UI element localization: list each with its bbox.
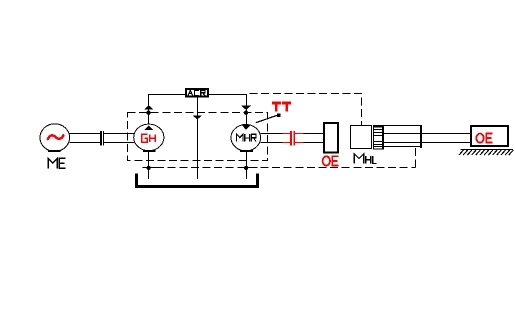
AC symbol (red tilde) inside ME: [48, 135, 64, 139]
wire GH vertical lower: [148, 151, 150, 179]
MHL barrel: [384, 125, 422, 148]
elastic coupling (red): [283, 131, 304, 146]
pump GH circle: [134, 124, 164, 151]
MHL piston (hatched): [373, 125, 384, 150]
junction dot MHR upper: [244, 111, 248, 115]
flow arrow on middle wire (down): [193, 116, 202, 120]
flywheel OE: [323, 122, 339, 154]
flow arrow at MHR circle top (down): [241, 124, 251, 130]
label MHL: [354, 154, 377, 164]
dashed supply line MHR to MHL (top): [246, 94, 362, 126]
ground hatching under load: [459, 150, 513, 156]
dashed enclosure box (hydrostatic unit): [128, 113, 268, 161]
tank (thick U): [137, 174, 258, 187]
coupling between ME and GH: [100, 131, 104, 146]
label MHR: [237, 134, 256, 141]
wire GH vertical upper: [148, 95, 150, 126]
wire MHR vertical upper: [246, 95, 248, 126]
label ME: [48, 158, 65, 168]
junction dot GH lower: [146, 166, 150, 170]
piston rod lines: [384, 134, 470, 143]
linear hydraulic motor MHL: swash block: [351, 126, 372, 149]
load box OE (right): [470, 125, 509, 147]
junction dot MHR lower: [244, 166, 248, 170]
shaft ME to GH (two lines): [70, 134, 135, 143]
top bus line GH to MHR: [148, 94, 247, 96]
shaft MHR to flywheel: [261, 134, 324, 143]
junction dot GH upper: [146, 111, 150, 115]
hydraulic motor MHR circle: [231, 125, 261, 152]
flow arrow at GH circle top (up): [144, 126, 153, 131]
TT leader line: [256, 114, 281, 123]
flow arrow on MHR upper wire (down): [241, 106, 251, 110]
drain dashed line to MHL: [143, 148, 416, 168]
wire MHR vertical lower: [246, 151, 248, 179]
wire middle vertical from ACR to tank: [197, 98, 199, 180]
label OE flywheel (red): [323, 156, 339, 165]
label GH (red): [142, 134, 155, 142]
electric motor ME circle: [40, 124, 70, 152]
torque transducer label TT (red): [272, 103, 291, 112]
flow arrow on GH upper wire (up): [144, 105, 154, 109]
regulator box ACR: [185, 88, 209, 98]
